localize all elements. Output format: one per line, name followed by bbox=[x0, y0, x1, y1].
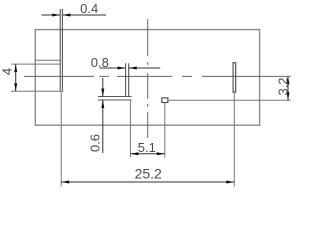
svg-text:3.2: 3.2 bbox=[275, 77, 290, 95]
horizontal centerline bbox=[24, 75, 291, 77]
dimension 25.2 left extension line bbox=[60, 91, 62, 186]
dimension 5.1 right extension line bbox=[164, 103, 166, 158]
datum square bbox=[162, 98, 168, 103]
dimension 3.2 line bbox=[287, 76, 289, 100]
extension line to 3.2 bbox=[168, 99, 291, 101]
dimension 0.8 right shaft bbox=[129, 67, 161, 69]
svg-text:0.8: 0.8 bbox=[91, 55, 109, 70]
dimension 25.2 left arrowhead bbox=[61, 181, 69, 184]
dimension 0.6 lower arrowhead bbox=[101, 100, 104, 108]
channel bottom line bbox=[98, 99, 132, 101]
dimension 5.1 left extension line bbox=[129, 100, 131, 158]
dimension 5.1 right arrowhead bbox=[157, 152, 165, 155]
dimension 4 top extension line bbox=[11, 63, 60, 65]
svg-text:0.6: 0.6 bbox=[88, 134, 103, 152]
dimension 25.2 right arrowhead bbox=[226, 181, 234, 184]
left slot line A bbox=[59, 9, 61, 91]
dimension 4 line bbox=[15, 64, 17, 91]
dimension 0.6 upper shaft bbox=[102, 78, 104, 97]
svg-text:0.4: 0.4 bbox=[80, 1, 98, 16]
svg-text:5.1: 5.1 bbox=[138, 140, 156, 155]
right slot bbox=[233, 63, 236, 92]
dimension 4 top arrowhead bbox=[14, 64, 17, 72]
dimension 0.8 left shaft bbox=[100, 67, 126, 69]
dimension 0.6 upper arrowhead bbox=[101, 89, 104, 97]
dimension 0.8 right arrowhead bbox=[129, 67, 137, 70]
dimension 0.4 right arrowhead bbox=[62, 14, 70, 17]
dimension 4 bottom extension line bbox=[11, 90, 64, 92]
svg-text:25.2: 25.2 bbox=[135, 165, 162, 181]
dimension 3.2 top arrowhead bbox=[287, 76, 290, 84]
vertical centerline bbox=[147, 19, 149, 138]
part outline rectangle bbox=[35, 30, 259, 126]
channel top line bbox=[98, 96, 132, 98]
svg-text:4: 4 bbox=[0, 68, 15, 75]
dimension 5.1 line bbox=[130, 153, 164, 155]
dimension 4 bottom arrowhead bbox=[14, 83, 17, 91]
dimension 5.1 left arrowhead bbox=[130, 152, 138, 155]
dimension 25.2 right extension line bbox=[233, 92, 235, 186]
dimension 0.4 left shaft bbox=[41, 14, 60, 16]
dimension 25.2 line bbox=[61, 181, 234, 183]
middle slot line B bbox=[128, 63, 130, 96]
dimension 0.6 lower shaft bbox=[102, 100, 104, 153]
middle slot line A bbox=[125, 63, 127, 96]
dimension 0.4 right shaft bbox=[62, 14, 106, 16]
dimension 3.2 bottom arrowhead bbox=[287, 92, 290, 100]
dimension 0.8 left arrowhead bbox=[118, 67, 126, 70]
left step line bbox=[35, 59, 60, 61]
dimension 0.4 left arrowhead bbox=[52, 14, 60, 17]
left slot line B bbox=[61, 9, 63, 91]
